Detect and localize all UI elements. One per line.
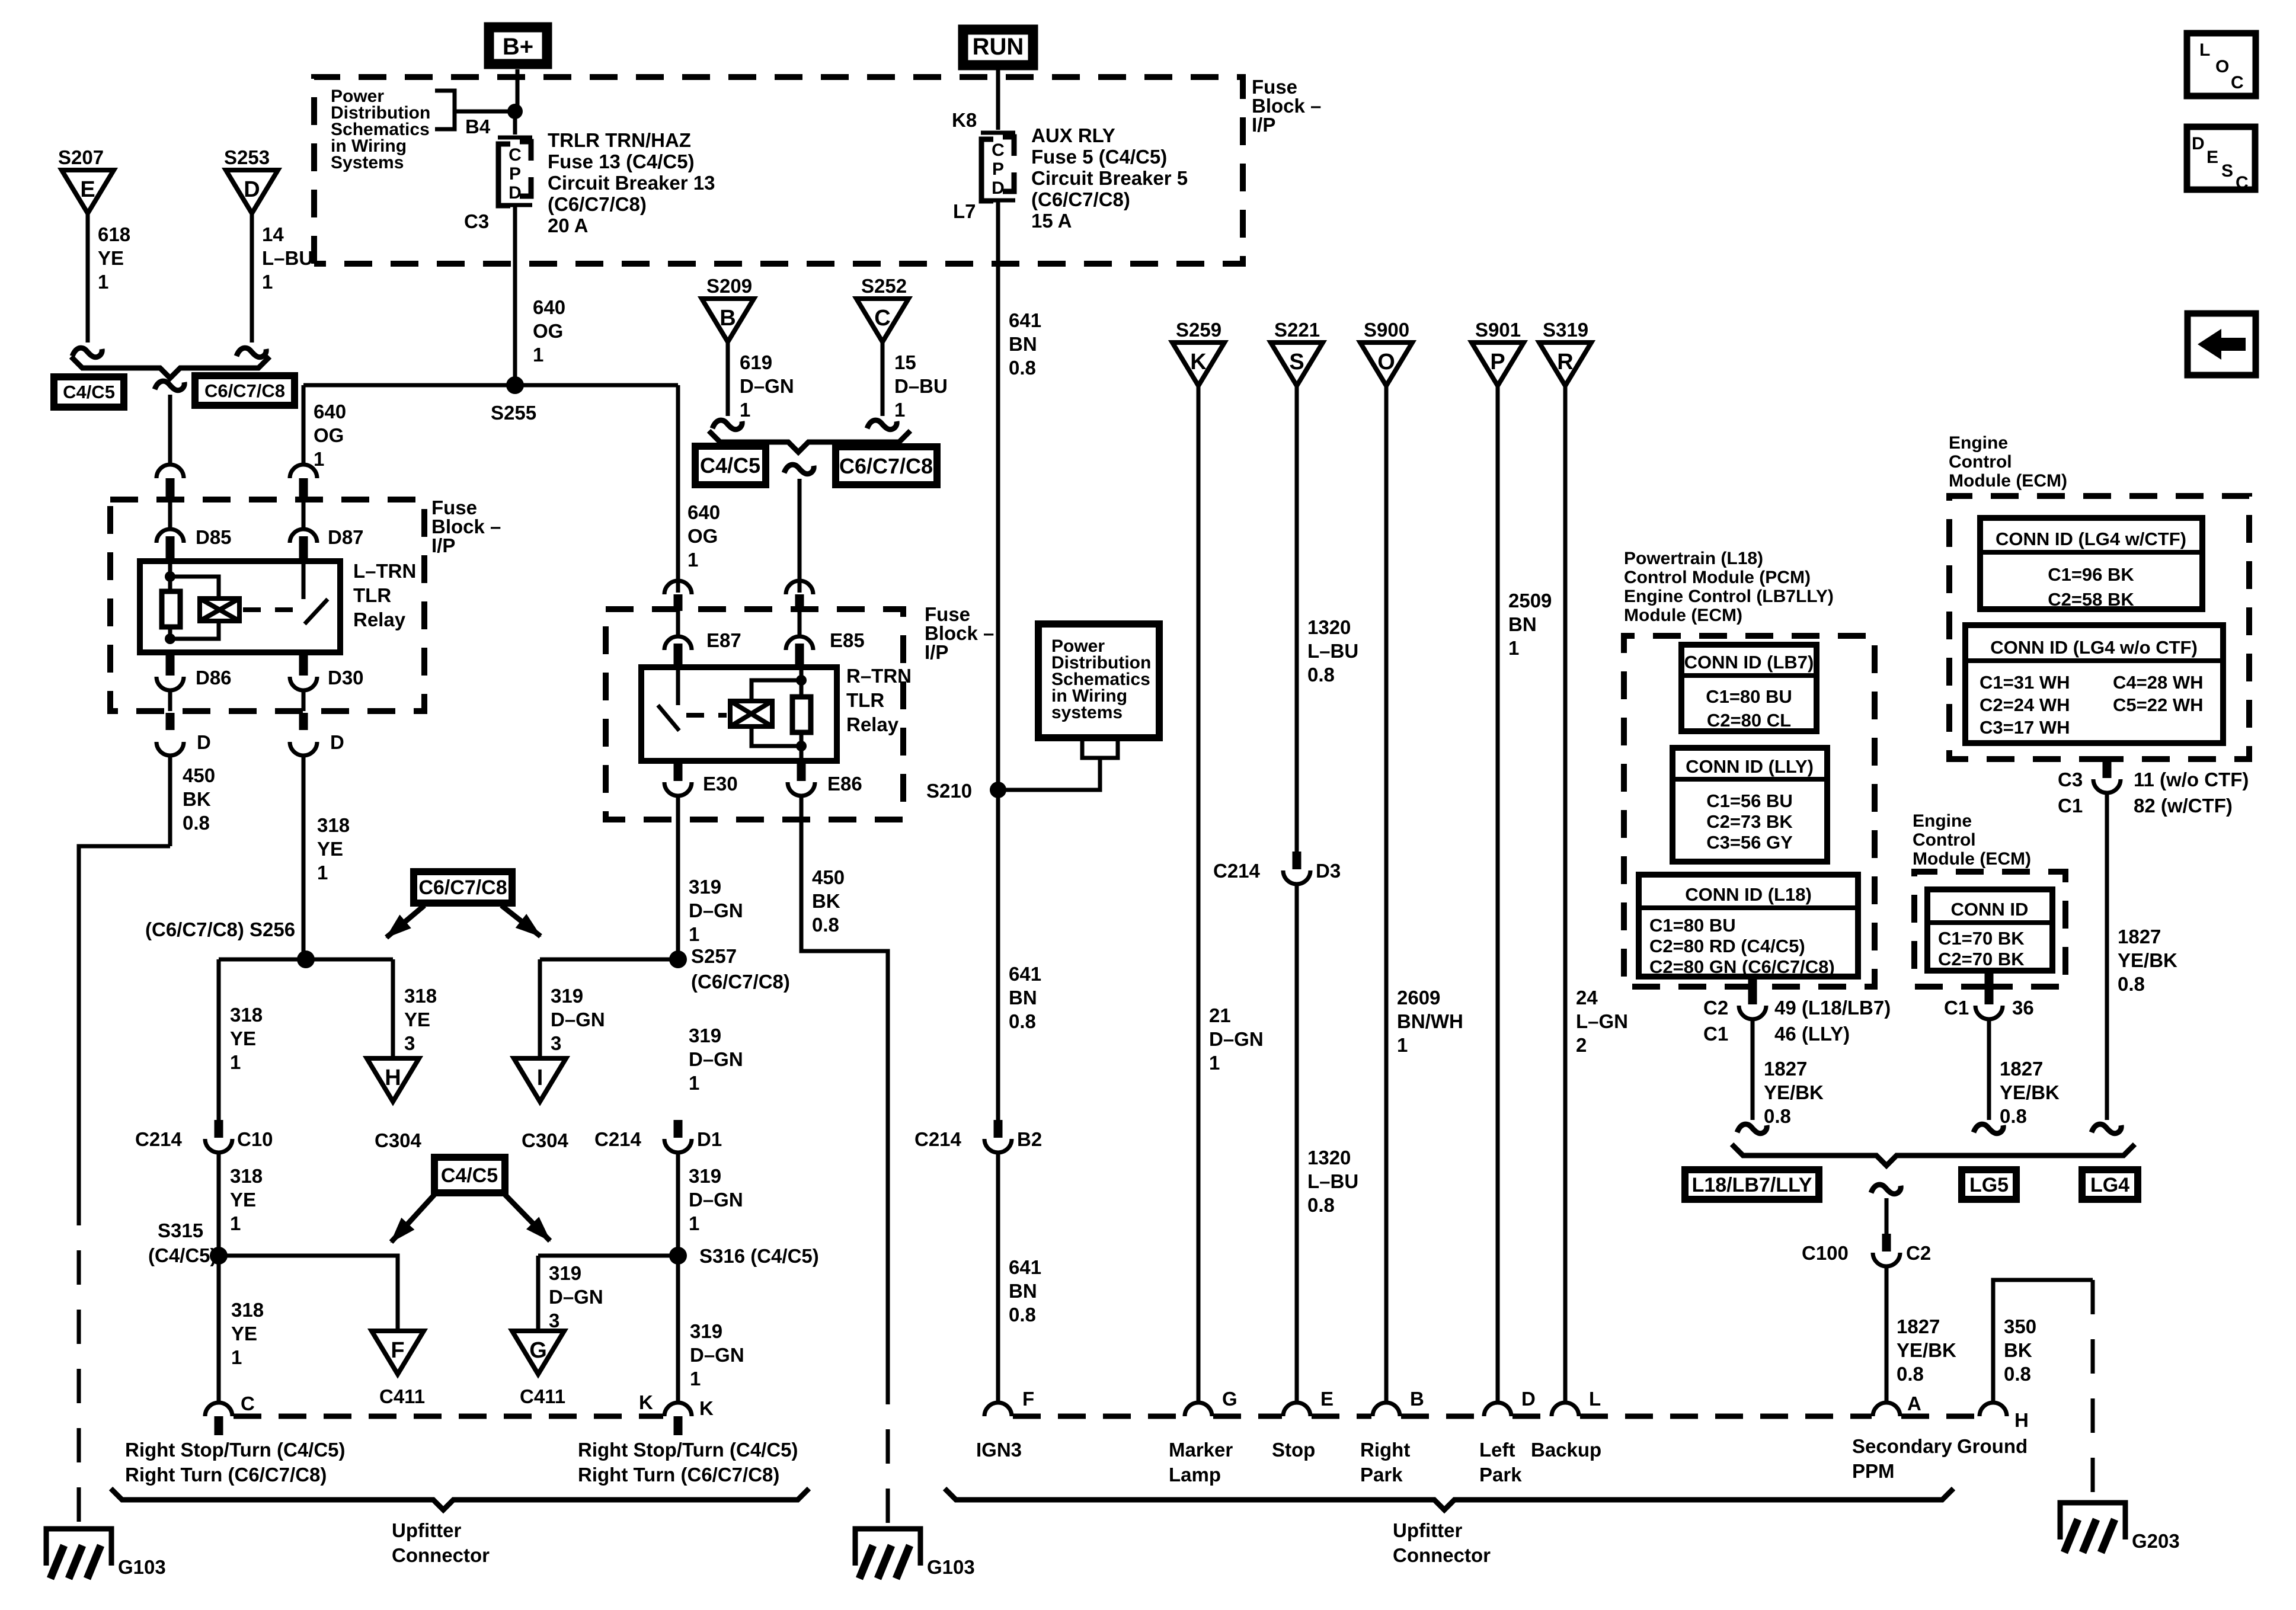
svg-text:Systems: Systems xyxy=(331,153,404,172)
svg-text:K8: K8 xyxy=(952,109,977,131)
wire to brace xyxy=(1987,1019,1991,1120)
upfitter connector dashed line (left) xyxy=(234,1414,663,1419)
svg-text:OG: OG xyxy=(314,424,344,446)
svg-text:C6/C7/C8: C6/C7/C8 xyxy=(418,876,507,899)
svg-text:11 (w/o CTF): 11 (w/o CTF) xyxy=(2134,769,2249,790)
wire brace down to E85 xyxy=(784,465,814,474)
svg-text:Park: Park xyxy=(1479,1464,1522,1486)
svg-text:S207: S207 xyxy=(58,146,104,168)
svg-text:1: 1 xyxy=(262,271,273,293)
svg-text:RUN: RUN xyxy=(973,34,1024,60)
svg-text:F: F xyxy=(391,1338,404,1363)
svg-text:IGN3: IGN3 xyxy=(976,1439,1022,1461)
svg-text:21: 21 xyxy=(1209,1004,1231,1026)
svg-text:P: P xyxy=(992,159,1004,179)
connector pin D85 xyxy=(156,529,184,543)
pin D (right) xyxy=(299,713,308,730)
connector box C6/C7/C8 xyxy=(195,376,295,405)
svg-text:641: 641 xyxy=(1009,309,1041,331)
svg-text:Connector: Connector xyxy=(1393,1544,1491,1566)
svg-text:Backup: Backup xyxy=(1531,1439,1601,1461)
CONN ID (LB7) box xyxy=(1681,645,1817,731)
svg-text:systems: systems xyxy=(1051,703,1123,722)
svg-text:318: 318 xyxy=(317,814,350,836)
svg-text:(C6/C7/C8): (C6/C7/C8) xyxy=(1031,188,1130,210)
svg-text:Relay: Relay xyxy=(846,713,899,735)
svg-text:YE/BK: YE/BK xyxy=(1897,1339,1956,1361)
svg-text:C1: C1 xyxy=(1944,997,1969,1019)
bracket to note xyxy=(435,91,455,129)
svg-text:E85: E85 xyxy=(830,629,865,651)
svg-text:D: D xyxy=(330,731,344,753)
svg-text:I: I xyxy=(537,1065,543,1090)
svg-text:C2=73 BK: C2=73 BK xyxy=(1706,811,1793,832)
svg-text:C4/C5: C4/C5 xyxy=(63,382,115,402)
svg-text:Connector: Connector xyxy=(392,1544,490,1566)
svg-text:Module (ECM): Module (ECM) xyxy=(1949,471,2067,491)
svg-text:319: 319 xyxy=(690,1320,722,1342)
connector C214/D1 xyxy=(674,1120,683,1138)
svg-text:C411: C411 xyxy=(379,1385,425,1407)
connector C214/D3 xyxy=(1293,852,1302,869)
svg-text:1320: 1320 xyxy=(1307,616,1351,638)
ground G103 left xyxy=(46,1529,111,1566)
svg-text:Lamp: Lamp xyxy=(1169,1464,1221,1486)
svg-text:618: 618 xyxy=(98,223,130,245)
svg-text:0.8: 0.8 xyxy=(812,914,839,936)
svg-text:Engine: Engine xyxy=(1949,433,2008,453)
svg-text:C2: C2 xyxy=(1703,997,1728,1019)
svg-text:S257: S257 xyxy=(691,945,737,967)
svg-text:S315: S315 xyxy=(158,1219,203,1241)
svg-text:1827: 1827 xyxy=(2118,926,2161,948)
wire fuse to S210 xyxy=(996,202,1000,790)
fuse AUX RLY CPD 5 xyxy=(981,131,1015,135)
svg-text:S319: S319 xyxy=(1543,319,1588,341)
pin F IGN3 xyxy=(984,1403,1012,1416)
svg-text:319: 319 xyxy=(551,985,583,1007)
relay actuator dashed xyxy=(686,713,727,718)
svg-text:3: 3 xyxy=(404,1032,415,1054)
svg-text:1: 1 xyxy=(1209,1052,1220,1074)
svg-text:P: P xyxy=(1490,350,1505,375)
svg-text:YE: YE xyxy=(404,1009,430,1030)
upfitter brace right xyxy=(945,1489,1953,1510)
svg-text:0.8: 0.8 xyxy=(1009,357,1036,379)
svg-text:D–GN: D–GN xyxy=(740,375,794,397)
svg-text:C2: C2 xyxy=(1906,1242,1931,1264)
svg-text:Module (ECM): Module (ECM) xyxy=(1624,606,1742,625)
brace merge S207/S253 xyxy=(71,357,270,378)
svg-text:B: B xyxy=(720,306,736,331)
pin D (left) xyxy=(166,713,175,730)
brace merge S209/S252 xyxy=(709,431,910,452)
svg-text:K: K xyxy=(1190,350,1207,375)
svg-text:D: D xyxy=(992,178,1005,198)
svg-text:E30: E30 xyxy=(703,773,738,795)
svg-text:YE: YE xyxy=(98,247,124,269)
svg-text:36: 36 xyxy=(2012,997,2034,1019)
svg-text:O: O xyxy=(2215,57,2229,76)
svg-text:0.8: 0.8 xyxy=(2004,1363,2031,1385)
svg-text:BN: BN xyxy=(1009,333,1037,355)
svg-text:CONN ID (LG4 w/CTF): CONN ID (LG4 w/CTF) xyxy=(1996,529,2186,549)
svg-text:S221: S221 xyxy=(1274,319,1320,341)
svg-text:318: 318 xyxy=(231,1299,264,1321)
svg-text:K: K xyxy=(699,1397,714,1419)
relay coil resistor xyxy=(168,561,172,591)
svg-text:CONN ID (LLY): CONN ID (LLY) xyxy=(1686,756,1814,777)
svg-text:D–GN: D–GN xyxy=(689,1189,743,1211)
arrow box C4/C5 xyxy=(434,1157,505,1193)
CONN ID (LLY) box xyxy=(1673,748,1827,862)
svg-text:E: E xyxy=(1320,1388,1334,1410)
svg-text:C1: C1 xyxy=(2058,795,2083,817)
splice node S255 xyxy=(506,376,524,394)
pin D Left Park xyxy=(1484,1403,1511,1416)
svg-text:F: F xyxy=(1022,1388,1034,1410)
svg-text:Park: Park xyxy=(1360,1464,1403,1486)
svg-text:1320: 1320 xyxy=(1307,1147,1351,1169)
svg-text:Engine: Engine xyxy=(1913,811,1972,831)
svg-text:C3: C3 xyxy=(2058,769,2083,790)
pin E Stop xyxy=(1283,1403,1310,1416)
svg-text:CONN ID (LG4 w/o CTF): CONN ID (LG4 w/o CTF) xyxy=(1990,637,2198,658)
svg-text:L: L xyxy=(1589,1388,1601,1410)
svg-text:B2: B2 xyxy=(1017,1128,1042,1150)
svg-text:C304: C304 xyxy=(375,1129,422,1151)
svg-text:0.8: 0.8 xyxy=(1307,664,1335,686)
svg-text:1: 1 xyxy=(687,549,698,571)
svg-text:15: 15 xyxy=(894,351,916,373)
node junction at B4 xyxy=(507,104,523,119)
svg-text:318: 318 xyxy=(404,985,437,1007)
splice S257 xyxy=(669,950,687,968)
svg-text:641: 641 xyxy=(1009,963,1041,985)
splice S316 xyxy=(669,1247,687,1265)
svg-text:319: 319 xyxy=(689,1165,721,1187)
pin C3/C1 11/82 xyxy=(2103,759,2112,778)
svg-text:D–GN: D–GN xyxy=(1209,1028,1264,1050)
svg-text:Relay: Relay xyxy=(353,609,406,630)
svg-text:450: 450 xyxy=(812,866,845,888)
relay coil resistor xyxy=(800,667,804,697)
svg-text:D1: D1 xyxy=(697,1128,722,1150)
svg-text:S: S xyxy=(2221,161,2233,181)
svg-text:C: C xyxy=(874,306,890,331)
splice triangle F xyxy=(372,1331,424,1374)
svg-text:YE/BK: YE/BK xyxy=(2118,949,2177,971)
svg-text:15 A: 15 A xyxy=(1031,210,1072,232)
connector box C6/C7/C8 xyxy=(836,447,937,485)
pin G Marker Lamp xyxy=(1185,1403,1212,1416)
svg-text:Right: Right xyxy=(1360,1439,1410,1461)
svg-text:0.8: 0.8 xyxy=(2000,1105,2027,1127)
svg-text:1827: 1827 xyxy=(1764,1058,1807,1080)
svg-text:D: D xyxy=(1521,1388,1536,1410)
svg-text:H: H xyxy=(385,1065,401,1090)
svg-text:S252: S252 xyxy=(861,275,907,297)
svg-text:P: P xyxy=(509,164,521,184)
svg-text:1: 1 xyxy=(689,1072,699,1094)
wire S207 to C4/C5 brace xyxy=(86,213,90,343)
svg-text:C3=56 GY: C3=56 GY xyxy=(1706,832,1793,853)
svg-text:3: 3 xyxy=(551,1032,561,1054)
svg-text:Module (ECM): Module (ECM) xyxy=(1913,849,2031,869)
svg-text:C: C xyxy=(2231,73,2244,92)
svg-text:1: 1 xyxy=(690,1368,701,1390)
fuse block IP dashed box (top) xyxy=(314,77,1243,264)
svg-text:BK: BK xyxy=(2004,1339,2032,1361)
ECM dashed box (large) xyxy=(1949,496,2249,759)
svg-text:Right Turn (C6/C7/C8): Right Turn (C6/C7/C8) xyxy=(578,1464,779,1486)
svg-text:C4/C5: C4/C5 xyxy=(700,453,760,478)
svg-text:BN: BN xyxy=(1508,613,1537,635)
svg-text:CONN ID (L18): CONN ID (L18) xyxy=(1685,884,1812,905)
upfitter connector dashed line (right) xyxy=(1013,1414,1184,1419)
svg-text:I/P: I/P xyxy=(1252,114,1275,136)
fuse block IP dashed box (relay L-TRN) xyxy=(110,500,424,711)
pin K (upfitter) xyxy=(664,1403,692,1416)
pin C (upfitter) xyxy=(205,1403,232,1416)
svg-text:C: C xyxy=(241,1393,255,1414)
svg-text:D–BU: D–BU xyxy=(894,375,948,397)
connector pin D30 xyxy=(299,652,308,676)
svg-text:C100: C100 xyxy=(1802,1242,1849,1264)
svg-text:2: 2 xyxy=(1576,1034,1587,1056)
brace L18/LB7/LLY LG5 LG4 xyxy=(1732,1144,2135,1166)
svg-text:C2=80 RD (C4/C5): C2=80 RD (C4/C5) xyxy=(1649,936,1805,956)
svg-text:14: 14 xyxy=(262,223,284,245)
wire to brace xyxy=(2105,792,2109,1120)
svg-text:C2=80 GN (C6/C7/C8): C2=80 GN (C6/C7/C8) xyxy=(1649,956,1835,977)
svg-text:E: E xyxy=(2207,148,2218,167)
svg-text:I/P: I/P xyxy=(925,641,948,663)
svg-text:BN/WH: BN/WH xyxy=(1397,1010,1463,1032)
svg-text:CONN ID: CONN ID xyxy=(1951,899,2029,920)
svg-text:C2=58 BK: C2=58 BK xyxy=(2048,589,2134,610)
svg-text:640: 640 xyxy=(314,401,346,422)
splice triangle I xyxy=(514,1058,566,1102)
svg-text:C1=31 WH: C1=31 WH xyxy=(1980,672,2070,693)
svg-text:D87: D87 xyxy=(328,526,364,548)
svg-text:C214: C214 xyxy=(594,1128,642,1150)
ground G203 xyxy=(2060,1503,2125,1539)
svg-text:TLR: TLR xyxy=(353,584,391,606)
wire B+ down xyxy=(516,69,520,110)
svg-text:619: 619 xyxy=(740,351,772,373)
svg-text:C2=24 WH: C2=24 WH xyxy=(1980,694,2070,715)
power feed B+ xyxy=(489,27,547,64)
svg-text:YE: YE xyxy=(317,838,343,860)
svg-text:Ground: Ground xyxy=(1957,1435,2028,1457)
svg-text:20 A: 20 A xyxy=(548,215,588,236)
svg-text:G: G xyxy=(529,1338,547,1363)
svg-text:D–GN: D–GN xyxy=(690,1344,744,1366)
wire E86 450 BK to ground xyxy=(801,795,888,1370)
connector box C4/C5 xyxy=(54,377,124,407)
svg-text:C1: C1 xyxy=(1703,1023,1728,1045)
svg-text:C1=70 BK: C1=70 BK xyxy=(1938,928,2025,949)
ECM dashed box (small) xyxy=(1914,872,2065,987)
svg-text:Upfitter: Upfitter xyxy=(392,1519,461,1541)
wire fuse to S255 xyxy=(513,207,517,385)
svg-text:D–GN: D–GN xyxy=(689,900,743,921)
svg-text:640: 640 xyxy=(687,501,720,523)
svg-text:0.8: 0.8 xyxy=(183,812,210,834)
svg-text:S900: S900 xyxy=(1364,319,1409,341)
svg-text:G203: G203 xyxy=(2132,1530,2180,1552)
svg-text:0.8: 0.8 xyxy=(1897,1363,1924,1385)
connector C214/B2 xyxy=(994,1120,1003,1138)
svg-text:L–TRN: L–TRN xyxy=(353,560,416,582)
svg-text:24: 24 xyxy=(1576,987,1598,1009)
box LG5 xyxy=(1962,1170,2016,1199)
svg-text:L7: L7 xyxy=(953,200,976,222)
svg-text:YE: YE xyxy=(231,1323,257,1345)
svg-text:C411: C411 xyxy=(520,1385,565,1407)
note Power Distribution box xyxy=(1038,624,1159,738)
svg-text:1827: 1827 xyxy=(1897,1315,1940,1337)
svg-text:D86: D86 xyxy=(196,667,232,689)
wire S255 horizontal xyxy=(303,383,678,388)
svg-text:PPM: PPM xyxy=(1852,1460,1895,1482)
svg-text:CONN ID (LB7): CONN ID (LB7) xyxy=(1684,652,1814,673)
svg-text:640: 640 xyxy=(533,296,565,318)
svg-text:(C6/C7/C8): (C6/C7/C8) xyxy=(548,193,647,215)
svg-text:450: 450 xyxy=(183,764,215,786)
svg-text:1: 1 xyxy=(230,1051,241,1073)
svg-text:C6/C7/C8: C6/C7/C8 xyxy=(204,380,285,401)
svg-text:L18/LB7/LLY: L18/LB7/LLY xyxy=(1692,1174,1812,1196)
svg-text:318: 318 xyxy=(230,1004,263,1026)
arrow box C6/C7/C8 xyxy=(414,872,512,903)
pin H Ground xyxy=(1980,1403,2007,1416)
svg-text:S210: S210 xyxy=(926,780,972,802)
svg-text:A: A xyxy=(1907,1393,1921,1414)
wire RUN down xyxy=(996,69,1000,130)
svg-text:C2=70 BK: C2=70 BK xyxy=(1938,949,2025,969)
svg-text:1: 1 xyxy=(230,1212,241,1234)
fuse TRLR TRN/HAZ CPD 13 xyxy=(498,136,532,140)
svg-text:1: 1 xyxy=(894,399,905,421)
wire S255 to E87 xyxy=(676,385,680,593)
svg-text:BK: BK xyxy=(183,788,211,810)
svg-text:1: 1 xyxy=(740,399,750,421)
wire 450 BK to left bus xyxy=(79,846,170,1191)
connector pin D87 xyxy=(290,529,317,543)
arrow box xyxy=(2188,313,2256,375)
svg-text:0.8: 0.8 xyxy=(1307,1194,1335,1216)
svg-text:318: 318 xyxy=(230,1165,263,1187)
svg-text:C1=56 BU: C1=56 BU xyxy=(1706,790,1793,811)
splice S315 xyxy=(210,1247,228,1265)
connector box C4/C5 xyxy=(695,446,766,485)
svg-text:C214: C214 xyxy=(914,1128,962,1150)
wire S to stop xyxy=(1295,386,1299,852)
svg-text:D: D xyxy=(244,177,260,202)
svg-text:C2=80 CL: C2=80 CL xyxy=(1707,710,1791,731)
svg-text:B+: B+ xyxy=(503,34,533,60)
svg-text:S209: S209 xyxy=(706,275,752,297)
svg-text:C5=22 WH: C5=22 WH xyxy=(2113,694,2203,715)
svg-text:O: O xyxy=(1377,350,1395,375)
svg-text:YE/BK: YE/BK xyxy=(1764,1081,1824,1103)
svg-text:L–BU: L–BU xyxy=(1307,640,1358,662)
power feed RUN xyxy=(963,30,1033,65)
PCM dashed box xyxy=(1624,636,1875,987)
svg-text:Control: Control xyxy=(1913,830,1976,850)
svg-text:Control Module (PCM): Control Module (PCM) xyxy=(1624,568,1811,587)
wire K to marker lamp xyxy=(1197,386,1201,1403)
svg-text:Stop: Stop xyxy=(1272,1439,1315,1461)
svg-text:(C6/C7/C8): (C6/C7/C8) xyxy=(691,971,790,993)
svg-text:Right Stop/Turn (C4/C5): Right Stop/Turn (C4/C5) xyxy=(578,1439,798,1461)
CONN ID (LG4 w/o CTF) box xyxy=(1965,625,2223,743)
splice S210 xyxy=(990,782,1006,798)
svg-text:R–TRN: R–TRN xyxy=(846,665,912,687)
svg-text:YE: YE xyxy=(230,1189,256,1211)
svg-text:3: 3 xyxy=(549,1310,559,1331)
svg-text:C: C xyxy=(509,145,522,165)
svg-text:C4/C5: C4/C5 xyxy=(441,1164,498,1187)
svg-text:0.8: 0.8 xyxy=(1009,1010,1036,1032)
svg-text:D: D xyxy=(197,731,211,753)
svg-text:0.8: 0.8 xyxy=(1764,1105,1791,1127)
svg-text:C1=80 BU: C1=80 BU xyxy=(1649,915,1736,936)
svg-text:E87: E87 xyxy=(706,629,741,651)
svg-text:C3: C3 xyxy=(464,210,489,232)
svg-text:D–GN: D–GN xyxy=(549,1286,603,1308)
svg-text:G103: G103 xyxy=(927,1556,975,1578)
svg-text:350: 350 xyxy=(2004,1315,2036,1337)
wire to L18/LB7/LLY brace xyxy=(1751,1019,1755,1120)
box L18/LB7/LLY xyxy=(1685,1170,1819,1199)
wire S255 to D87 xyxy=(302,385,306,465)
svg-text:D–GN: D–GN xyxy=(689,1048,743,1070)
svg-text:G: G xyxy=(1222,1388,1237,1410)
svg-text:Right Turn (C6/C7/C8): Right Turn (C6/C7/C8) xyxy=(125,1464,327,1486)
svg-text:Marker: Marker xyxy=(1169,1439,1233,1461)
svg-text:Upfitter: Upfitter xyxy=(1393,1519,1462,1541)
pin C2/C1 49/46 xyxy=(1748,978,1757,1004)
svg-text:1827: 1827 xyxy=(2000,1058,2043,1080)
svg-text:TLR: TLR xyxy=(846,689,884,711)
svg-text:Circuit Breaker 5: Circuit Breaker 5 xyxy=(1031,167,1188,189)
svg-text:C214: C214 xyxy=(135,1128,183,1150)
relay actuator dashed xyxy=(243,607,299,612)
svg-text:C10: C10 xyxy=(237,1128,273,1150)
svg-text:D30: D30 xyxy=(328,667,364,689)
svg-text:BN: BN xyxy=(1009,987,1037,1009)
connector C100/C2 xyxy=(1882,1234,1891,1251)
connector pin E86 xyxy=(797,761,806,781)
svg-text:1: 1 xyxy=(689,923,699,945)
svg-text:B: B xyxy=(1410,1388,1424,1410)
relay switch xyxy=(302,561,306,599)
svg-text:BK: BK xyxy=(812,890,840,912)
wire brace to C100 xyxy=(1871,1185,1901,1194)
svg-text:C3=17 WH: C3=17 WH xyxy=(1980,717,2070,738)
pin L Backup xyxy=(1552,1403,1579,1416)
wire P to left park xyxy=(1496,386,1500,1403)
splice triangle G xyxy=(512,1331,564,1374)
wire 350 BK ground xyxy=(1993,1280,2093,1403)
svg-text:1: 1 xyxy=(1508,637,1519,659)
svg-text:L: L xyxy=(2199,40,2210,60)
svg-text:R: R xyxy=(1557,350,1573,375)
svg-text:0.8: 0.8 xyxy=(1009,1304,1036,1326)
